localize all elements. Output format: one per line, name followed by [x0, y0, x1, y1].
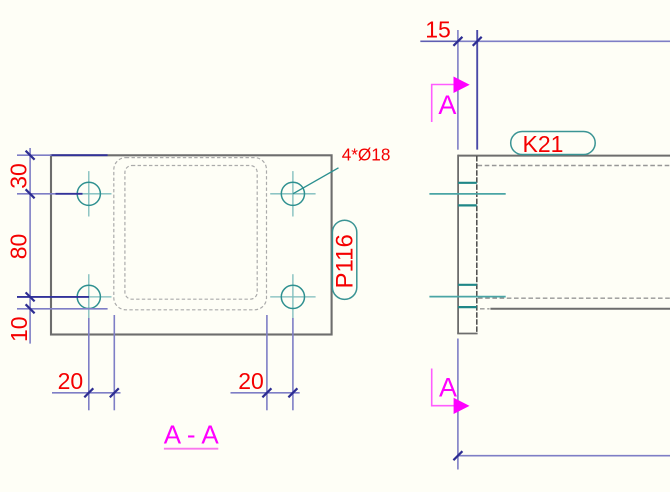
svg-text:A: A	[438, 90, 456, 120]
svg-text:4*Ø18: 4*Ø18	[342, 145, 391, 165]
svg-text:A: A	[439, 373, 457, 403]
svg-text:30: 30	[6, 163, 32, 189]
svg-text:15: 15	[425, 16, 451, 42]
svg-text:P116: P116	[332, 234, 359, 288]
svg-text:20: 20	[238, 368, 264, 394]
svg-text:20: 20	[58, 368, 84, 394]
svg-text:A - A: A - A	[164, 419, 220, 449]
svg-text:10: 10	[6, 316, 32, 342]
svg-text:K21: K21	[523, 131, 564, 157]
svg-text:80: 80	[6, 234, 32, 260]
